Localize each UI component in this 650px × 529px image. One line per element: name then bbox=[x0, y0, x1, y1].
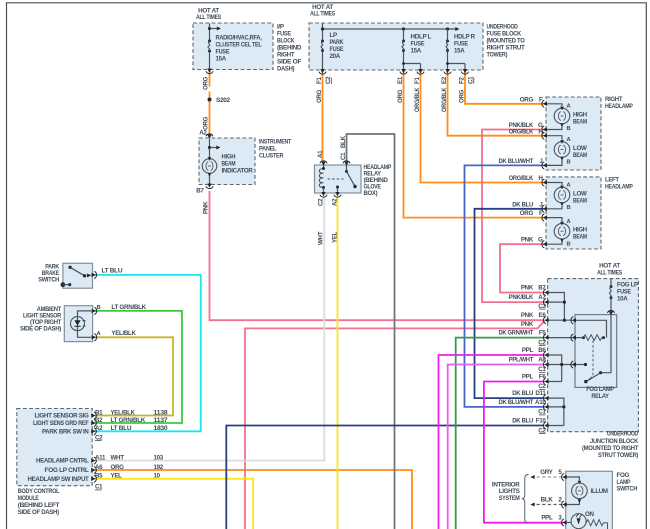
svg-text:BLK: BLK bbox=[340, 135, 347, 148]
svg-text:UNDERHOOD: UNDERHOOD bbox=[607, 431, 639, 438]
svg-text:PPL/WHT: PPL/WHT bbox=[509, 357, 534, 364]
svg-text:ORG: ORG bbox=[111, 464, 125, 471]
svg-text:ORG: ORG bbox=[459, 89, 466, 103]
svg-text:LOW: LOW bbox=[573, 191, 587, 198]
svg-text:20A: 20A bbox=[330, 53, 341, 60]
svg-text:PPL: PPL bbox=[522, 347, 534, 354]
svg-text:C1: C1 bbox=[340, 152, 347, 160]
svg-text:FUSE: FUSE bbox=[216, 49, 230, 56]
svg-text:LOW: LOW bbox=[573, 145, 587, 152]
svg-text:LP: LP bbox=[330, 32, 337, 39]
svg-text:HIGH: HIGH bbox=[573, 227, 588, 234]
svg-text:F2: F2 bbox=[459, 77, 466, 84]
svg-text:A8: A8 bbox=[538, 357, 546, 364]
svg-text:LIGHT SENSOR SIG: LIGHT SENSOR SIG bbox=[35, 413, 89, 420]
svg-text:FUSE: FUSE bbox=[617, 289, 631, 296]
svg-text:DK BLU/WHT: DK BLU/WHT bbox=[499, 399, 534, 406]
svg-text:1830: 1830 bbox=[154, 425, 169, 432]
svg-text:ORG: ORG bbox=[203, 116, 210, 130]
svg-text:ORG: ORG bbox=[520, 210, 534, 217]
svg-text:YEL/BLK: YEL/BLK bbox=[111, 330, 136, 337]
svg-text:B7: B7 bbox=[196, 188, 204, 195]
svg-text:G: G bbox=[538, 237, 543, 244]
svg-text:LT GRN/BLK: LT GRN/BLK bbox=[111, 417, 146, 424]
svg-text:B6: B6 bbox=[538, 347, 546, 354]
svg-text:SIDE OF DASH): SIDE OF DASH) bbox=[20, 326, 61, 333]
svg-text:YEL: YEL bbox=[332, 231, 339, 243]
svg-text:HIGH: HIGH bbox=[222, 154, 237, 161]
svg-text:F1: F1 bbox=[414, 77, 421, 84]
svg-text:B2: B2 bbox=[95, 417, 103, 424]
svg-text:BEAM: BEAM bbox=[573, 152, 587, 159]
svg-text:BLK: BLK bbox=[541, 496, 554, 503]
svg-text:B: B bbox=[567, 126, 571, 132]
svg-text:HEADLAMP CNTRL: HEADLAMP CNTRL bbox=[36, 458, 89, 465]
svg-text:PNK/BLK: PNK/BLK bbox=[509, 294, 534, 301]
svg-text:FOG LP: FOG LP bbox=[617, 282, 638, 289]
svg-text:BEAM: BEAM bbox=[573, 119, 587, 126]
svg-text:F: F bbox=[539, 210, 543, 217]
svg-text:FUSE BLOCK: FUSE BLOCK bbox=[487, 31, 522, 38]
svg-text:C2: C2 bbox=[318, 198, 325, 206]
svg-text:LEFT: LEFT bbox=[605, 177, 619, 184]
svg-text:B1: B1 bbox=[95, 409, 103, 416]
svg-text:HEADLAMP SW INPUT: HEADLAMP SW INPUT bbox=[28, 476, 90, 483]
svg-text:SWITCH: SWITCH bbox=[617, 486, 638, 493]
svg-text:A10: A10 bbox=[535, 399, 546, 406]
svg-text:FOG LAMP: FOG LAMP bbox=[586, 386, 614, 393]
svg-text:F1: F1 bbox=[316, 77, 323, 84]
svg-text:LIGHT SENS GRD REF: LIGHT SENS GRD REF bbox=[33, 420, 89, 427]
svg-text:B: B bbox=[97, 305, 101, 311]
svg-text:FOG LP CNTRL: FOG LP CNTRL bbox=[45, 467, 90, 474]
svg-text:15A: 15A bbox=[411, 48, 422, 55]
svg-text:F6: F6 bbox=[539, 374, 546, 381]
svg-text:INDICATOR: INDICATOR bbox=[222, 168, 254, 175]
svg-text:RELAY: RELAY bbox=[591, 393, 609, 400]
svg-text:15A: 15A bbox=[454, 48, 465, 55]
svg-text:1137: 1137 bbox=[154, 417, 169, 424]
svg-text:BEAM: BEAM bbox=[222, 161, 236, 168]
svg-text:D11: D11 bbox=[535, 390, 546, 397]
svg-text:I/P: I/P bbox=[277, 24, 284, 31]
svg-text:B7: B7 bbox=[538, 285, 546, 292]
svg-text:HEADLAMP: HEADLAMP bbox=[605, 103, 633, 110]
svg-text:ORG/BLK: ORG/BLK bbox=[509, 175, 534, 182]
svg-text:FUSE: FUSE bbox=[277, 31, 291, 38]
svg-text:RIGHT STRUT: RIGHT STRUT bbox=[487, 45, 526, 52]
svg-text:HOT AT: HOT AT bbox=[599, 263, 620, 270]
svg-text:(MOUNTED TO: (MOUNTED TO bbox=[487, 38, 525, 45]
svg-text:FUSE: FUSE bbox=[411, 41, 425, 48]
svg-text:RIGHT: RIGHT bbox=[277, 52, 295, 59]
svg-text:ORG: ORG bbox=[397, 89, 404, 103]
svg-text:ALL TIMES: ALL TIMES bbox=[597, 270, 622, 277]
svg-text:10: 10 bbox=[154, 473, 161, 480]
svg-text:10A: 10A bbox=[617, 296, 628, 303]
svg-text:DK GRN/WHT: DK GRN/WHT bbox=[499, 330, 534, 337]
svg-text:ORG: ORG bbox=[316, 89, 323, 103]
svg-text:PNK: PNK bbox=[521, 237, 534, 244]
svg-text:(BEHIND LEFT: (BEHIND LEFT bbox=[18, 502, 60, 509]
svg-text:PNK: PNK bbox=[521, 312, 534, 319]
svg-text:INSTRUMENT: INSTRUMENT bbox=[259, 139, 291, 146]
svg-text:A11: A11 bbox=[95, 454, 106, 461]
svg-text:F: F bbox=[539, 96, 543, 103]
svg-text:CLUSTER CEL TEL: CLUSTER CEL TEL bbox=[216, 42, 262, 49]
svg-text:SIDE OF: SIDE OF bbox=[277, 59, 302, 66]
svg-text:BEAM: BEAM bbox=[573, 234, 587, 241]
svg-text:SYSTEM: SYSTEM bbox=[499, 495, 520, 502]
svg-text:(MOUNTED TO RIGHT: (MOUNTED TO RIGHT bbox=[582, 445, 638, 452]
svg-text:RADIO/HVAC,RFA,: RADIO/HVAC,RFA, bbox=[216, 35, 263, 42]
svg-text:A1: A1 bbox=[317, 150, 324, 158]
svg-text:LT BLU: LT BLU bbox=[102, 268, 124, 275]
svg-text:DK BLU: DK BLU bbox=[512, 418, 533, 425]
svg-text:BODY CONTROL: BODY CONTROL bbox=[18, 488, 60, 495]
svg-text:SWITCH: SWITCH bbox=[38, 277, 59, 284]
svg-text:PPL: PPL bbox=[522, 374, 534, 381]
svg-text:WHT: WHT bbox=[318, 231, 325, 245]
svg-text:HDLP L: HDLP L bbox=[411, 34, 432, 41]
svg-text:S202: S202 bbox=[216, 97, 231, 104]
svg-text:DK BLU/WHT: DK BLU/WHT bbox=[499, 158, 534, 165]
svg-text:LT BLU: LT BLU bbox=[111, 425, 133, 432]
svg-text:DK BLU: DK BLU bbox=[512, 390, 533, 397]
svg-text:TOWER): TOWER) bbox=[487, 52, 508, 59]
svg-text:PNK: PNK bbox=[521, 285, 534, 292]
svg-text:HEADLAMP: HEADLAMP bbox=[605, 184, 633, 191]
svg-text:ORG: ORG bbox=[520, 96, 534, 103]
svg-text:PPL: PPL bbox=[541, 514, 553, 521]
svg-text:F10: F10 bbox=[536, 418, 547, 425]
svg-text:103: 103 bbox=[154, 454, 164, 461]
svg-text:192: 192 bbox=[154, 464, 164, 471]
svg-text:ORG/BLK: ORG/BLK bbox=[414, 87, 421, 112]
svg-text:A2: A2 bbox=[199, 130, 207, 137]
svg-text:ORG/BLK: ORG/BLK bbox=[509, 128, 534, 135]
svg-text:HIGH: HIGH bbox=[573, 112, 588, 119]
svg-text:YEL/BLK: YEL/BLK bbox=[111, 409, 136, 416]
svg-text:WHT: WHT bbox=[111, 454, 125, 461]
svg-text:MODULE: MODULE bbox=[18, 495, 39, 502]
svg-text:(BEHIND: (BEHIND bbox=[277, 45, 302, 52]
svg-text:CLUSTER: CLUSTER bbox=[259, 153, 284, 160]
svg-text:B: B bbox=[567, 160, 571, 166]
svg-text:B5: B5 bbox=[95, 473, 103, 480]
svg-text:B: B bbox=[567, 242, 571, 248]
svg-text:DK BLU: DK BLU bbox=[512, 201, 533, 208]
svg-text:BOX): BOX) bbox=[364, 190, 378, 197]
svg-text:FUSE: FUSE bbox=[454, 41, 468, 48]
svg-text:BLOCK: BLOCK bbox=[277, 38, 295, 45]
svg-text:PARK BRK SW IN: PARK BRK SW IN bbox=[42, 428, 89, 435]
svg-text:A7: A7 bbox=[538, 294, 546, 301]
svg-text:UNDERHOOD: UNDERHOOD bbox=[487, 24, 519, 31]
svg-text:ORG/BLK: ORG/BLK bbox=[441, 87, 448, 112]
svg-text:PARK: PARK bbox=[330, 39, 345, 46]
svg-text:PNK: PNK bbox=[203, 201, 210, 214]
svg-text:F5: F5 bbox=[539, 330, 546, 337]
svg-text:GRY: GRY bbox=[540, 469, 553, 476]
svg-text:ORG: ORG bbox=[203, 76, 210, 90]
svg-text:E2: E2 bbox=[441, 76, 448, 84]
svg-text:15A: 15A bbox=[216, 56, 227, 63]
svg-text:A2: A2 bbox=[332, 198, 339, 206]
svg-text:YEL: YEL bbox=[111, 473, 123, 480]
svg-text:HDLP R: HDLP R bbox=[454, 34, 476, 41]
svg-text:ILLUM: ILLUM bbox=[591, 488, 608, 495]
svg-text:STRUT TOWER): STRUT TOWER) bbox=[598, 452, 638, 459]
svg-text:RIGHT: RIGHT bbox=[605, 96, 623, 103]
svg-text:ALL TIMES: ALL TIMES bbox=[310, 11, 335, 18]
svg-text:E6: E6 bbox=[539, 312, 547, 319]
svg-text:ON: ON bbox=[585, 511, 595, 518]
svg-text:1138: 1138 bbox=[154, 409, 169, 416]
svg-text:JUNCTION BLOCK: JUNCTION BLOCK bbox=[590, 438, 639, 445]
svg-text:DASH): DASH) bbox=[277, 66, 294, 73]
svg-text:B: B bbox=[567, 205, 571, 211]
svg-text:SIDE OF DASH): SIDE OF DASH) bbox=[18, 509, 59, 516]
svg-text:A2: A2 bbox=[95, 425, 103, 432]
svg-text:PNK: PNK bbox=[521, 321, 534, 328]
svg-text:ALL TIMES: ALL TIMES bbox=[196, 14, 221, 21]
svg-text:A6: A6 bbox=[95, 464, 103, 471]
svg-text:LT GRN/BLK: LT GRN/BLK bbox=[111, 304, 146, 311]
svg-text:FUSE: FUSE bbox=[330, 46, 344, 53]
svg-text:PANEL: PANEL bbox=[259, 146, 277, 153]
svg-text:BEAM: BEAM bbox=[573, 198, 587, 205]
svg-text:E1: E1 bbox=[397, 76, 404, 84]
